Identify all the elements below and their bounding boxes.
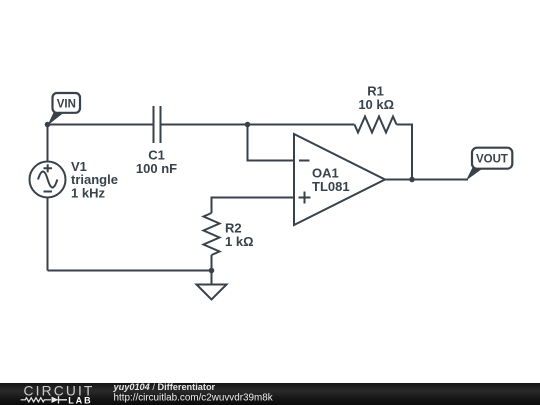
resistor R1 — [355, 84, 397, 133]
CircuitLab logo — [21, 384, 95, 405]
svg-text:yuy0104 / Differentiator: yuy0104 / Differentiator — [113, 382, 216, 392]
wire from R1 down to output node — [397, 125, 413, 180]
node output junction dot — [409, 177, 415, 183]
wire V1 top lead — [47, 125, 49, 162]
svg-text:1 kΩ: 1 kΩ — [225, 234, 254, 249]
resistor R2 — [204, 213, 254, 255]
wire from C1 right plate through node to R1 — [161, 124, 355, 126]
svg-text:VOUT: VOUT — [476, 154, 508, 166]
svg-text:1 kHz: 1 kHz — [71, 185, 105, 200]
node ground junction dot — [209, 268, 215, 274]
ground — [197, 271, 227, 300]
node A junction dot (inverting input net) — [245, 122, 251, 128]
wire top from VIN node to C1 left plate — [48, 124, 154, 126]
footer credit text — [113, 382, 273, 403]
voltage source V1 — [30, 159, 118, 200]
wire V1 bottom lead — [47, 198, 49, 271]
node VOUT flag — [466, 148, 512, 181]
svg-text:100 nF: 100 nF — [136, 161, 177, 176]
node VIN junction dot — [45, 122, 51, 128]
capacitor C1 — [136, 106, 177, 176]
svg-text:http://circuitlab.com/c2wuvvdr: http://circuitlab.com/c2wuvvdr39m8k — [114, 392, 273, 403]
svg-text:VIN: VIN — [57, 99, 76, 111]
svg-text:10 kΩ: 10 kΩ — [358, 97, 394, 112]
node VIN flag — [48, 93, 81, 126]
wire R2 bottom to ground node — [211, 255, 213, 271]
wire bottom from V1 to ground node — [48, 270, 212, 272]
wire from non-inverting input left to R2 top — [212, 198, 295, 214]
svg-text:LAB: LAB — [68, 396, 93, 405]
svg-text:TL081: TL081 — [312, 179, 350, 194]
wire op-amp output to VOUT flag — [385, 179, 468, 181]
wire from node A down to op-amp inverting input — [248, 125, 295, 161]
op-amp OA1 TL081 — [294, 134, 385, 225]
footer bar — [0, 383, 540, 405]
